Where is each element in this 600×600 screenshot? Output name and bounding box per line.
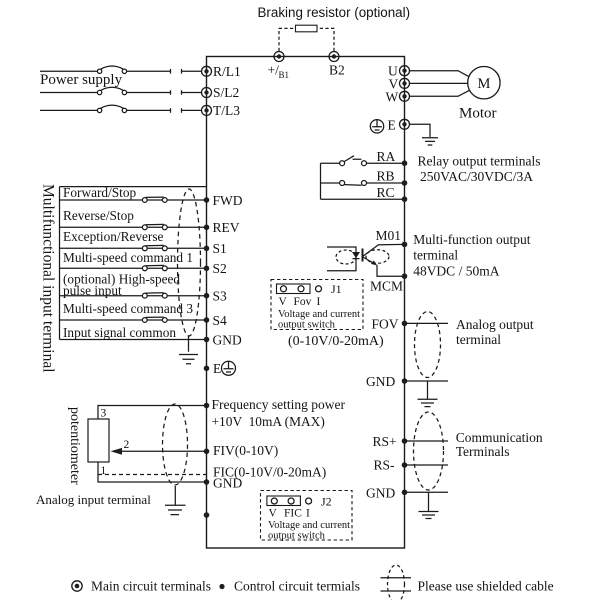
wire E to ground bbox=[410, 124, 431, 137]
node FOV bbox=[402, 321, 408, 327]
svg-text:+10V 10mA (MAX): +10V 10mA (MAX) bbox=[212, 414, 325, 429]
wire relay bracket bbox=[320, 163, 322, 199]
switch FWD bbox=[142, 197, 167, 202]
wire GND row (input) bbox=[60, 339, 207, 341]
svg-text:GND: GND bbox=[366, 485, 395, 500]
svg-text:+/: +/ bbox=[268, 63, 280, 78]
node RS- bbox=[402, 462, 408, 468]
wire S2 row bbox=[60, 267, 207, 269]
svg-text:Frequency setting power: Frequency setting power bbox=[212, 397, 346, 412]
node M01 bbox=[402, 242, 408, 248]
wire S4 row bbox=[60, 319, 207, 321]
terminal B2 bbox=[329, 52, 339, 62]
svg-text:output switch: output switch bbox=[268, 530, 326, 541]
node FWD bbox=[204, 197, 210, 203]
wire FIC dashed bbox=[98, 474, 207, 476]
jumper J2 dashed box bbox=[261, 491, 353, 541]
svg-text:Forward/Stop: Forward/Stop bbox=[63, 185, 136, 200]
wire FIV wiper arrow bbox=[111, 448, 207, 455]
svg-text:Motor: Motor bbox=[459, 106, 497, 122]
label +/B1 bbox=[268, 63, 290, 81]
optocoupler dashed ellipse transistor bbox=[366, 250, 389, 264]
svg-text:MCM: MCM bbox=[370, 279, 403, 294]
switch REV bbox=[142, 224, 167, 229]
jumper J1 pins bbox=[281, 286, 322, 292]
svg-text:terminal: terminal bbox=[413, 248, 458, 263]
motor M bbox=[468, 67, 500, 99]
node GND (communication) bbox=[402, 490, 408, 496]
terminal W bbox=[400, 91, 410, 101]
svg-text:250VAC/30VDC/3A: 250VAC/30VDC/3A bbox=[420, 169, 533, 184]
label V Fov I bbox=[279, 296, 321, 308]
connector ticks row 2 bbox=[171, 90, 182, 95]
svg-text:B1: B1 bbox=[279, 70, 290, 80]
jumper J2 pins bbox=[271, 498, 311, 504]
wire RS+ bbox=[405, 440, 449, 442]
wire dashed braking resistor right leg bbox=[318, 28, 335, 51]
node RS+ bbox=[402, 438, 408, 444]
svg-text:S4: S4 bbox=[213, 313, 228, 328]
breaker row 2 bbox=[97, 87, 126, 94]
svg-text:GND: GND bbox=[213, 332, 242, 347]
svg-text:2: 2 bbox=[124, 439, 130, 451]
protective earth symbol (input) bbox=[222, 361, 236, 375]
svg-text:J1: J1 bbox=[331, 282, 342, 296]
breaker row 3 bbox=[97, 105, 126, 112]
svg-text:RB: RB bbox=[377, 169, 395, 184]
svg-text:Multi-function output: Multi-function output bbox=[413, 232, 531, 247]
transistor Q1 emitter with arrow bbox=[363, 257, 405, 276]
ground (input shield) bbox=[179, 336, 198, 364]
wire S3 row bbox=[60, 295, 207, 297]
svg-text:Relay output terminals: Relay output terminals bbox=[418, 154, 541, 169]
wire dashed braking resistor left leg bbox=[279, 28, 295, 51]
jumper J2 header rect bbox=[267, 496, 301, 506]
optocoupler LED arrow bbox=[352, 252, 360, 259]
node FIV bbox=[204, 449, 210, 455]
wire REV row bbox=[60, 226, 207, 228]
svg-text:Main circuit terminals: Main circuit terminals bbox=[91, 579, 211, 594]
optocoupler dashed ellipse LED bbox=[336, 250, 356, 264]
svg-text:E: E bbox=[213, 361, 221, 376]
svg-text:RC: RC bbox=[377, 185, 395, 200]
node MCM bbox=[402, 273, 408, 279]
svg-text:1: 1 bbox=[101, 465, 107, 477]
terminal +/B1 bbox=[274, 52, 284, 62]
wire M01 collector bbox=[363, 244, 405, 256]
svg-text:V: V bbox=[279, 296, 288, 308]
input table left border bbox=[59, 187, 61, 340]
wire RC row bbox=[321, 198, 405, 200]
svg-text:FWD: FWD bbox=[213, 193, 243, 208]
shielded cable ellipse (communication) bbox=[414, 412, 444, 490]
svg-text:GND: GND bbox=[213, 475, 242, 490]
svg-text:Analog input terminal: Analog input terminal bbox=[36, 492, 151, 507]
svg-text:48VDC / 50mA: 48VDC / 50mA bbox=[413, 264, 500, 279]
jumper J1 dashed box bbox=[271, 280, 363, 330]
svg-text:FIC: FIC bbox=[284, 507, 302, 519]
svg-text:Braking resistor (optional): Braking resistor (optional) bbox=[258, 5, 411, 20]
optocoupler LED input leads bbox=[327, 247, 356, 271]
svg-text:pulse input: pulse input bbox=[63, 283, 122, 298]
terminal U bbox=[400, 66, 410, 76]
svg-text:E: E bbox=[388, 117, 396, 132]
svg-text:M: M bbox=[477, 76, 490, 92]
svg-text:B2: B2 bbox=[329, 63, 345, 78]
svg-text:Fov: Fov bbox=[294, 296, 312, 308]
ground (motor side) bbox=[422, 138, 438, 145]
wire FOV bbox=[405, 322, 449, 324]
svg-text:Power supply: Power supply bbox=[40, 72, 123, 88]
svg-text:S2: S2 bbox=[213, 261, 227, 276]
svg-text:M01: M01 bbox=[376, 228, 402, 243]
node RC bbox=[402, 196, 408, 202]
svg-text:REV: REV bbox=[213, 220, 240, 235]
breaker row 1 bbox=[97, 66, 126, 73]
wire RB row bbox=[321, 182, 405, 184]
node RB bbox=[402, 180, 408, 186]
svg-text:GND: GND bbox=[366, 374, 395, 389]
wire RS- bbox=[405, 464, 449, 466]
wire GND (analog output) bbox=[405, 380, 449, 382]
svg-text:R/L1: R/L1 bbox=[213, 64, 241, 79]
resistor braking (optional) bbox=[296, 25, 318, 32]
svg-text:Input signal common: Input signal common bbox=[63, 325, 176, 340]
shielded cable ellipse (input) bbox=[178, 189, 201, 336]
svg-text:Please use shielded cable: Please use shielded cable bbox=[418, 579, 554, 594]
switch S2 bbox=[142, 265, 167, 270]
svg-text:potentiometer: potentiometer bbox=[67, 407, 82, 485]
wire S1 row bbox=[60, 247, 207, 249]
wire GND (communication) bbox=[405, 491, 449, 493]
svg-text:RS+: RS+ bbox=[373, 434, 397, 449]
svg-text:Exception/Reverse: Exception/Reverse bbox=[63, 229, 164, 244]
svg-text:I: I bbox=[306, 507, 310, 519]
wire U to motor bbox=[410, 71, 470, 77]
legend control circuit dot bbox=[219, 584, 224, 589]
svg-text:Terminals: Terminals bbox=[456, 444, 510, 459]
wire power line 3 bbox=[40, 109, 202, 111]
inverter main block outline bbox=[207, 57, 405, 549]
wire power line 1 bbox=[40, 70, 202, 72]
terminal T/L3 bbox=[202, 105, 212, 115]
label V FIC I bbox=[269, 507, 311, 519]
transistor Q1 base bar bbox=[362, 249, 364, 262]
svg-text:FIV(0-10V): FIV(0-10V) bbox=[213, 443, 278, 458]
svg-text:Control circuit termials: Control circuit termials bbox=[234, 579, 360, 594]
shielded cable ellipse (analog input) bbox=[163, 404, 188, 485]
node S4 bbox=[204, 317, 210, 323]
wire FWD row bbox=[60, 199, 207, 201]
svg-text:RA: RA bbox=[377, 149, 396, 164]
svg-text:W: W bbox=[386, 89, 399, 104]
svg-text:Multifunctional input terminal: Multifunctional input terminal bbox=[40, 184, 57, 373]
switch S4 bbox=[142, 317, 167, 322]
jumper J1 header rect bbox=[277, 284, 311, 294]
terminal V bbox=[400, 78, 410, 88]
node GND (analog output) bbox=[402, 378, 408, 384]
node S3 bbox=[204, 293, 210, 299]
ground (analog input shield) bbox=[165, 486, 186, 515]
wire power line 2 bbox=[40, 92, 202, 94]
svg-text:Communication: Communication bbox=[456, 430, 543, 445]
svg-text:FOV: FOV bbox=[372, 316, 399, 331]
node RA bbox=[402, 160, 408, 166]
terminal E right bbox=[400, 119, 410, 129]
input table top border bbox=[60, 186, 207, 188]
terminal S/L2 bbox=[202, 88, 212, 98]
protective earth symbol left of E bbox=[370, 120, 383, 133]
svg-text:terminal: terminal bbox=[456, 332, 501, 347]
svg-text:Multi-speed command 3: Multi-speed command 3 bbox=[63, 301, 193, 316]
svg-text:Analog output: Analog output bbox=[456, 317, 534, 332]
connector ticks row 1 bbox=[171, 69, 182, 74]
wire W to motor bbox=[410, 90, 470, 96]
node S1 bbox=[204, 246, 210, 252]
terminal R/L1 bbox=[202, 66, 212, 76]
svg-text:S/L2: S/L2 bbox=[213, 85, 239, 100]
svg-text:Multi-speed command 1: Multi-speed command 1 bbox=[63, 250, 193, 265]
potentiometer body bbox=[88, 419, 109, 462]
node E (input) bbox=[204, 366, 210, 372]
svg-text:S3: S3 bbox=[213, 289, 228, 304]
wire RA row bbox=[321, 162, 405, 164]
svg-text:I: I bbox=[317, 296, 321, 308]
switch S3 bbox=[142, 293, 167, 298]
wire potentiometer pin 1 bbox=[98, 462, 207, 482]
relay contact RA (open) bbox=[340, 156, 367, 166]
svg-text:output switch: output switch bbox=[278, 319, 336, 330]
wire V to motor bbox=[410, 82, 468, 84]
svg-text:J2: J2 bbox=[321, 494, 332, 508]
connector ticks row 3 bbox=[171, 108, 182, 113]
node REV bbox=[204, 225, 210, 231]
svg-text:3: 3 bbox=[101, 408, 107, 420]
svg-text:S1: S1 bbox=[213, 241, 227, 256]
wire potentiometer pin 3 bbox=[98, 406, 207, 420]
svg-text:(0-10V/0-20mA): (0-10V/0-20mA) bbox=[288, 334, 384, 349]
svg-text:T/L3: T/L3 bbox=[213, 103, 240, 118]
ground (analog output) bbox=[418, 381, 438, 407]
legend main circuit terminal symbol bbox=[72, 581, 82, 591]
svg-text:Reverse/Stop: Reverse/Stop bbox=[63, 208, 134, 223]
svg-text:V: V bbox=[269, 507, 278, 519]
node S2 bbox=[204, 266, 210, 272]
svg-text:RS-: RS- bbox=[374, 458, 396, 473]
legend shielded cable symbol bbox=[381, 565, 412, 600]
switch S1 bbox=[142, 245, 167, 250]
node GND (analog input) bbox=[204, 479, 210, 485]
ground (communication) bbox=[419, 492, 439, 518]
shielded cable ellipse (analog output) bbox=[415, 312, 441, 378]
node unlabeled control terminal bbox=[204, 512, 210, 518]
node frequency power bbox=[204, 403, 210, 409]
node GND (input) bbox=[204, 337, 210, 343]
relay contact RB (closed) bbox=[340, 181, 367, 186]
